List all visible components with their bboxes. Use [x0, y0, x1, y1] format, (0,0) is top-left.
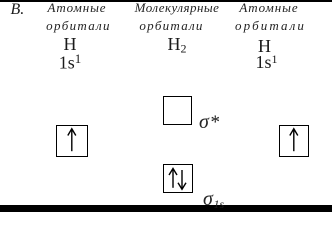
top border bar — [0, 0, 332, 2]
header col3 line2: орбитали — [235, 19, 306, 32]
left AO box — [56, 125, 88, 157]
header col2 line2: орбитали — [139, 19, 203, 32]
up arrow in right AO box — [279, 125, 309, 157]
bottom border bar — [0, 205, 332, 212]
header col1 line1: Атомные — [48, 1, 107, 14]
header col3 line1: Атомные — [239, 1, 298, 14]
electron config 1s1 (right column) — [255, 53, 277, 71]
header col2 line1: Молекулярные — [135, 1, 220, 14]
label sigma (antibonding) — [199, 112, 209, 132]
label sigma (bonding) — [203, 189, 213, 209]
molecule symbol H2 (center column) — [168, 35, 187, 55]
atom symbol H (left column) — [64, 35, 77, 53]
label star of sigma-star — [211, 113, 221, 132]
up arrow in bonding box — [163, 164, 193, 193]
label subscript 1s of bonding sigma — [214, 198, 225, 210]
header col1 line2: орбитали — [46, 19, 111, 32]
right AO box — [279, 125, 309, 157]
atom symbol H (right column) — [258, 37, 271, 55]
bonding MO box with electron pair — [163, 164, 193, 193]
label B. (figure caption letter) — [11, 2, 25, 18]
antibonding MO box (empty) — [163, 96, 192, 126]
electron config 1s1 (left column) — [59, 52, 82, 72]
up arrow in left AO box — [56, 125, 88, 157]
